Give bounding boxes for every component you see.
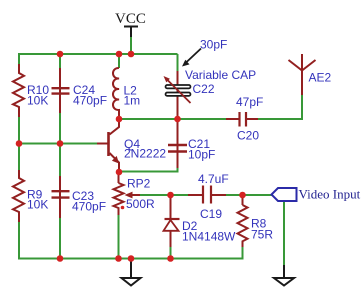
junction R10/R9 on base rail xyxy=(16,140,23,147)
wire: emitter to C21 bottom link xyxy=(119,167,178,172)
junction L2 top on VCC rail xyxy=(116,51,123,58)
wire: top rail y=54 xyxy=(19,54,178,64)
svg-text:AE2: AE2 xyxy=(309,71,332,85)
svg-text:4.7uF: 4.7uF xyxy=(198,172,229,186)
svg-text:2N2222: 2N2222 xyxy=(124,147,166,161)
capacitor C19 xyxy=(188,194,203,196)
junction R8 top on wiper rail xyxy=(239,192,246,199)
resistor R10 xyxy=(13,64,24,117)
wire: C23 column greens xyxy=(59,144,61,177)
junction C22 / C21 on tank rail xyxy=(174,116,181,123)
svg-text:C19: C19 xyxy=(200,207,222,221)
wire: C24 column greens xyxy=(59,54,61,68)
svg-text:1m: 1m xyxy=(124,94,141,108)
junction RP2 bottom on ground rail xyxy=(115,255,122,262)
inductor L2 xyxy=(113,68,119,116)
svg-text:10pF: 10pF xyxy=(188,148,215,162)
antenna AE2 xyxy=(301,71,303,96)
potentiometer RP2 xyxy=(118,174,120,183)
svg-text:1N4148W: 1N4148W xyxy=(182,230,236,244)
annotation arrow 30pF xyxy=(185,49,201,64)
capacitor C20 xyxy=(226,118,240,120)
junction L2 bottom / Q4 collector xyxy=(116,116,123,123)
junction D2 bottom on ground rail xyxy=(167,255,174,262)
ground (left) xyxy=(130,259,132,278)
resistor R9 xyxy=(13,170,24,222)
svg-text:75R: 75R xyxy=(251,228,273,242)
capacitor C21 xyxy=(177,119,179,168)
junction ground stem on ground rail xyxy=(128,255,135,262)
svg-text:C20: C20 xyxy=(237,129,259,143)
wire: y=119 rail right of C20 up to antenna xyxy=(258,95,302,119)
svg-text:Variable CAP: Variable CAP xyxy=(185,68,256,82)
wire: wiper rail y=195 xyxy=(140,194,188,196)
svg-text:C22: C22 xyxy=(193,82,215,96)
svg-text:VCC: VCC xyxy=(115,11,146,27)
svg-text:30pF: 30pF xyxy=(200,38,227,52)
wire: C22 column top green xyxy=(177,54,179,71)
wire: RP2 column bottom green xyxy=(118,215,120,259)
connector Video Input xyxy=(272,188,297,201)
wire: VCC drop xyxy=(130,37,132,55)
junction D2 top on wiper rail xyxy=(167,192,174,199)
ground (right) xyxy=(283,265,285,277)
capacitor C24 xyxy=(59,68,61,113)
wire: video input drop to ground xyxy=(283,201,285,266)
junction Q4 emitter / RP2 top xyxy=(116,169,123,176)
resistor R8 xyxy=(242,195,244,205)
svg-text:500R: 500R xyxy=(126,197,155,211)
svg-text:47pF: 47pF xyxy=(236,95,263,109)
junction C23 bottom on ground rail xyxy=(57,255,64,262)
diode D2 xyxy=(170,195,172,219)
svg-text:470pF: 470pF xyxy=(72,200,106,214)
wire: bottom rail y=258.5 xyxy=(19,247,243,259)
wire: L2 column top green xyxy=(118,54,120,68)
wire: wiper rail right of C19 to connector xyxy=(226,194,272,196)
junction C24 top on VCC rail xyxy=(57,51,64,58)
wire: D2 bottom green xyxy=(170,247,172,259)
svg-text:RP2: RP2 xyxy=(127,177,151,191)
wire: left column green segment between R10 and R9 xyxy=(18,117,20,170)
wire: left column green segment below R9 xyxy=(18,222,20,260)
svg-text:Video Input: Video Input xyxy=(299,187,361,202)
svg-text:470pF: 470pF xyxy=(73,94,107,108)
junction VCC feed on VCC rail xyxy=(128,51,135,58)
capacitor C23 xyxy=(59,176,61,218)
wire: middle rail y=143.5 to Q4 base xyxy=(19,143,97,145)
wire: tank rail y=119 xyxy=(119,118,228,120)
svg-text:10K: 10K xyxy=(27,94,48,108)
svg-text:10K: 10K xyxy=(27,198,48,212)
VCC power symbol xyxy=(124,26,138,28)
junction C24/C23 on base rail xyxy=(57,140,64,147)
variable capacitor C22 xyxy=(177,71,179,119)
transistor Q4 xyxy=(107,132,110,156)
